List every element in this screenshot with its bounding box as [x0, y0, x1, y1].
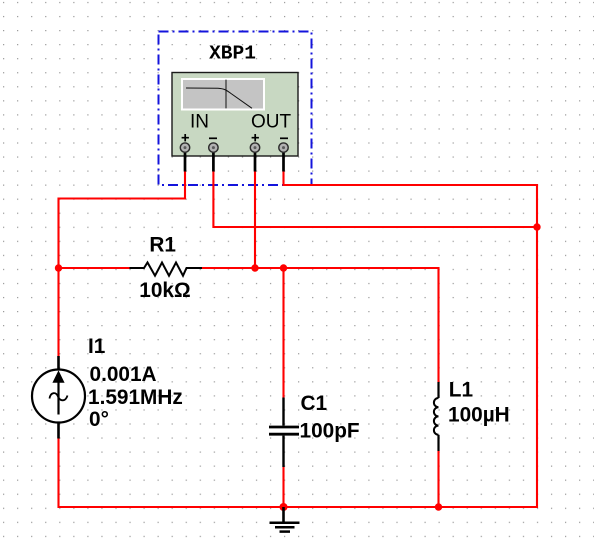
- terminal OUT+: [250, 143, 259, 152]
- wire C1 bottom: [282, 467, 284, 507]
- svg-text:0.001A: 0.001A: [90, 363, 157, 386]
- junction ground node (283.5,507): [280, 503, 288, 511]
- wire IN+ to node A: [59, 172, 186, 357]
- junction L1 bottom (438.5,507): [435, 503, 442, 510]
- capacitor C1: [269, 398, 299, 468]
- svg-text:OUT: OUT: [251, 112, 292, 133]
- instrument boundary XBP1 dashed box: [159, 32, 312, 186]
- wire top rail left segment: [57, 267, 129, 269]
- terminal IN+: [180, 143, 189, 152]
- screen response curve: [186, 88, 252, 108]
- resistor R1: [130, 263, 203, 276]
- svg-text:I1: I1: [88, 335, 105, 358]
- wire OUT- right rail down to ground rail: [59, 172, 538, 508]
- svg-text:XBP1: XBP1: [209, 43, 256, 65]
- inductor L1: [434, 382, 439, 451]
- terminal pin stubs: [185, 151, 284, 172]
- svg-text:1.591MHz: 1.591MHz: [88, 386, 183, 409]
- junction node A (58.5,268): [55, 264, 62, 271]
- polarity marks + - + -: [182, 134, 288, 141]
- bode plotter U1 body: [172, 73, 298, 157]
- wire top rail right segment to L1: [202, 268, 439, 382]
- terminal IN-: [209, 143, 218, 152]
- bode plotter screen: [181, 78, 265, 111]
- svg-text:R1: R1: [149, 234, 176, 257]
- junction node C1 top (283.5,268): [280, 264, 287, 271]
- screen cursor line: [225, 80, 227, 109]
- junction right rail (537,227): [533, 223, 540, 230]
- ground: [270, 507, 300, 532]
- svg-text:C1: C1: [301, 392, 328, 415]
- wire IN- to right rail: [213, 172, 537, 228]
- svg-text:0°: 0°: [89, 408, 109, 431]
- svg-text:10kΩ: 10kΩ: [139, 279, 190, 302]
- current source I1: [32, 356, 85, 439]
- svg-text:L1: L1: [449, 379, 473, 402]
- svg-text:100µH: 100µH: [448, 404, 510, 427]
- svg-text:IN: IN: [190, 112, 209, 133]
- wire L1 bottom: [437, 451, 439, 507]
- junction node B (255,268): [251, 264, 258, 271]
- wire OUT+ to node B: [254, 172, 256, 269]
- terminal OUT-: [279, 143, 288, 152]
- wire C1 top: [282, 268, 284, 398]
- svg-text:100pF: 100pF: [300, 420, 360, 443]
